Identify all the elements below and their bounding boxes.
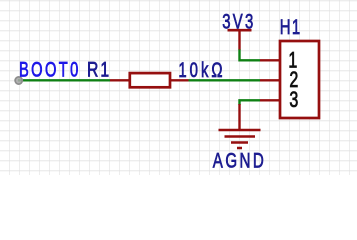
svg-text:3: 3 bbox=[289, 89, 298, 113]
svg-text:AGND: AGND bbox=[213, 148, 266, 172]
svg-text:10kΩ: 10kΩ bbox=[178, 58, 225, 81]
svg-text:R1: R1 bbox=[87, 57, 111, 81]
svg-text:BOOT0: BOOT0 bbox=[19, 58, 81, 81]
svg-text:H1: H1 bbox=[280, 16, 302, 39]
svg-text:3V3: 3V3 bbox=[222, 10, 255, 33]
